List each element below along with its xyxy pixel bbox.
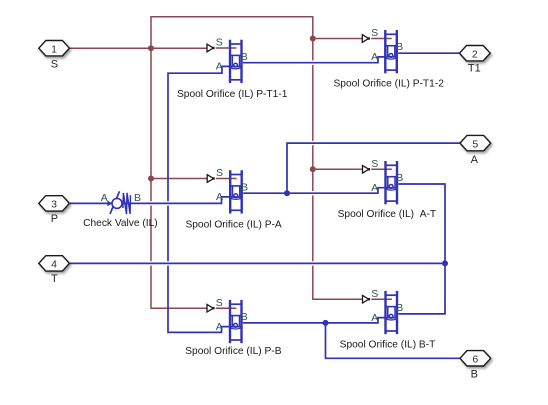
node: maroon junction x151 P-A S branch [148, 176, 154, 182]
wire: branch down to port 6 B [326, 323, 461, 358]
wire: maroon vertical x312.8 down right column to P-T1-2, A-T, B-T S inputs [313, 39, 363, 300]
svg-text:S: S [216, 37, 223, 49]
svg-text:B: B [471, 368, 478, 380]
svg-text:Spool Orifice (IL) A-T: Spool Orifice (IL) A-T [338, 209, 437, 220]
wire: port 4 T line to junction x445 [70, 262, 445, 264]
svg-text:A: A [371, 312, 378, 324]
wire: P-T1-1 B to P-T1-2 A [243, 57, 385, 63]
svg-text:S: S [371, 27, 378, 39]
svg-text:1: 1 [51, 43, 57, 55]
op block U5: Spool Orifice (IL) P-B [185, 297, 281, 357]
svg-text:A: A [371, 182, 378, 194]
wire: P-A B to A-T A with branch to port 5 [243, 188, 385, 194]
svg-text:5: 5 [472, 138, 478, 150]
wire: maroon vertical x151 down to P-A S and P-B S branch [151, 48, 207, 308]
svg-text:B: B [396, 41, 403, 53]
op block U3: Spool Orifice (IL) P-A [185, 167, 281, 230]
wire: B-T B up to T junction [398, 263, 445, 314]
svg-text:B: B [134, 192, 141, 204]
svg-text:A: A [371, 51, 378, 63]
svg-text:Spool Orifice (IL) P-A: Spool Orifice (IL) P-A [185, 220, 281, 231]
svg-text:B: B [241, 51, 248, 63]
node: maroon junction x312.8 P-T1-2 S branch [310, 36, 316, 42]
port 1 (S) hexagon connector [39, 41, 70, 71]
node: maroon junction at port1 line x151 [148, 45, 154, 51]
svg-text:6: 6 [472, 354, 478, 366]
op block U1: Spool Orifice (IL) P-T1-1 [177, 37, 288, 100]
wire: branch up to port 5 A [287, 143, 460, 193]
wire: junction to P-T1-1 S arrow [151, 47, 207, 49]
wire: P-B B to B-T A [243, 318, 385, 323]
wire: top PS routing from port 1 junction over to right column (maroon) [151, 17, 313, 49]
svg-text:A: A [216, 191, 223, 203]
svg-text:A: A [216, 321, 223, 333]
svg-text:4: 4 [51, 259, 57, 271]
port 6 (B) hexagon connector [460, 351, 491, 381]
svg-text:Spool Orifice (IL) P-T1-1: Spool Orifice (IL) P-T1-1 [177, 89, 288, 100]
node: blue junction port5 branch [284, 190, 290, 196]
op block U2: Spool Orifice (IL) P-T1-2 [333, 27, 444, 89]
svg-text:A: A [101, 192, 108, 204]
op block U6: Spool Orifice (IL) B-T [340, 288, 436, 350]
node: blue junction port6 branch [323, 320, 329, 326]
svg-text:S: S [51, 58, 58, 70]
svg-text:T1: T1 [468, 62, 481, 74]
svg-text:Spool Orifice (IL) P-T1-2: Spool Orifice (IL) P-T1-2 [333, 79, 444, 90]
svg-text:S: S [371, 288, 378, 300]
svg-text:B: B [396, 172, 403, 184]
svg-text:S: S [216, 297, 223, 309]
wire: maroon branch to Spool Orifice P-A S input [151, 178, 207, 180]
check valve CV1 icon [83, 191, 158, 229]
svg-text:Spool Orifice (IL) P-B: Spool Orifice (IL) P-B [185, 346, 281, 357]
svg-text:Spool Orifice (IL) B-T: Spool Orifice (IL) B-T [340, 339, 436, 350]
svg-text:A: A [216, 61, 223, 73]
svg-text:3: 3 [51, 199, 57, 211]
node: blue junction T net x445 [442, 260, 448, 266]
wire: blue P line from port 3 through check valve to P-A A [70, 197, 230, 204]
port 2 (T1) hexagon connector [460, 46, 491, 75]
svg-text:S: S [216, 167, 223, 179]
svg-text:Check Valve (IL): Check Valve (IL) [83, 218, 158, 229]
wire: blue vertical x168 P-T1-1 A to P-B A [168, 66, 230, 332]
wire: P-T1-2 B to port 2 T1 [398, 52, 459, 54]
svg-text:2: 2 [472, 48, 478, 60]
port 5 (A) hexagon connector [460, 135, 491, 165]
svg-text:A: A [471, 154, 479, 166]
op block U4: Spool Orifice (IL) A-T [338, 158, 437, 220]
svg-text:T: T [51, 273, 58, 285]
svg-text:B: B [241, 311, 248, 323]
svg-text:S: S [371, 158, 378, 170]
wire: A-T B down to T junction [398, 184, 445, 263]
node: maroon junction x312.8 A-T S branch [310, 166, 316, 172]
svg-text:B: B [396, 302, 403, 314]
wire: port 1 S to junction x151 [69, 47, 151, 49]
svg-text:P: P [51, 213, 58, 225]
port 4 (T) hexagon connector [39, 256, 70, 285]
port 3 (P) hexagon connector [39, 196, 70, 225]
svg-text:B: B [241, 181, 248, 193]
